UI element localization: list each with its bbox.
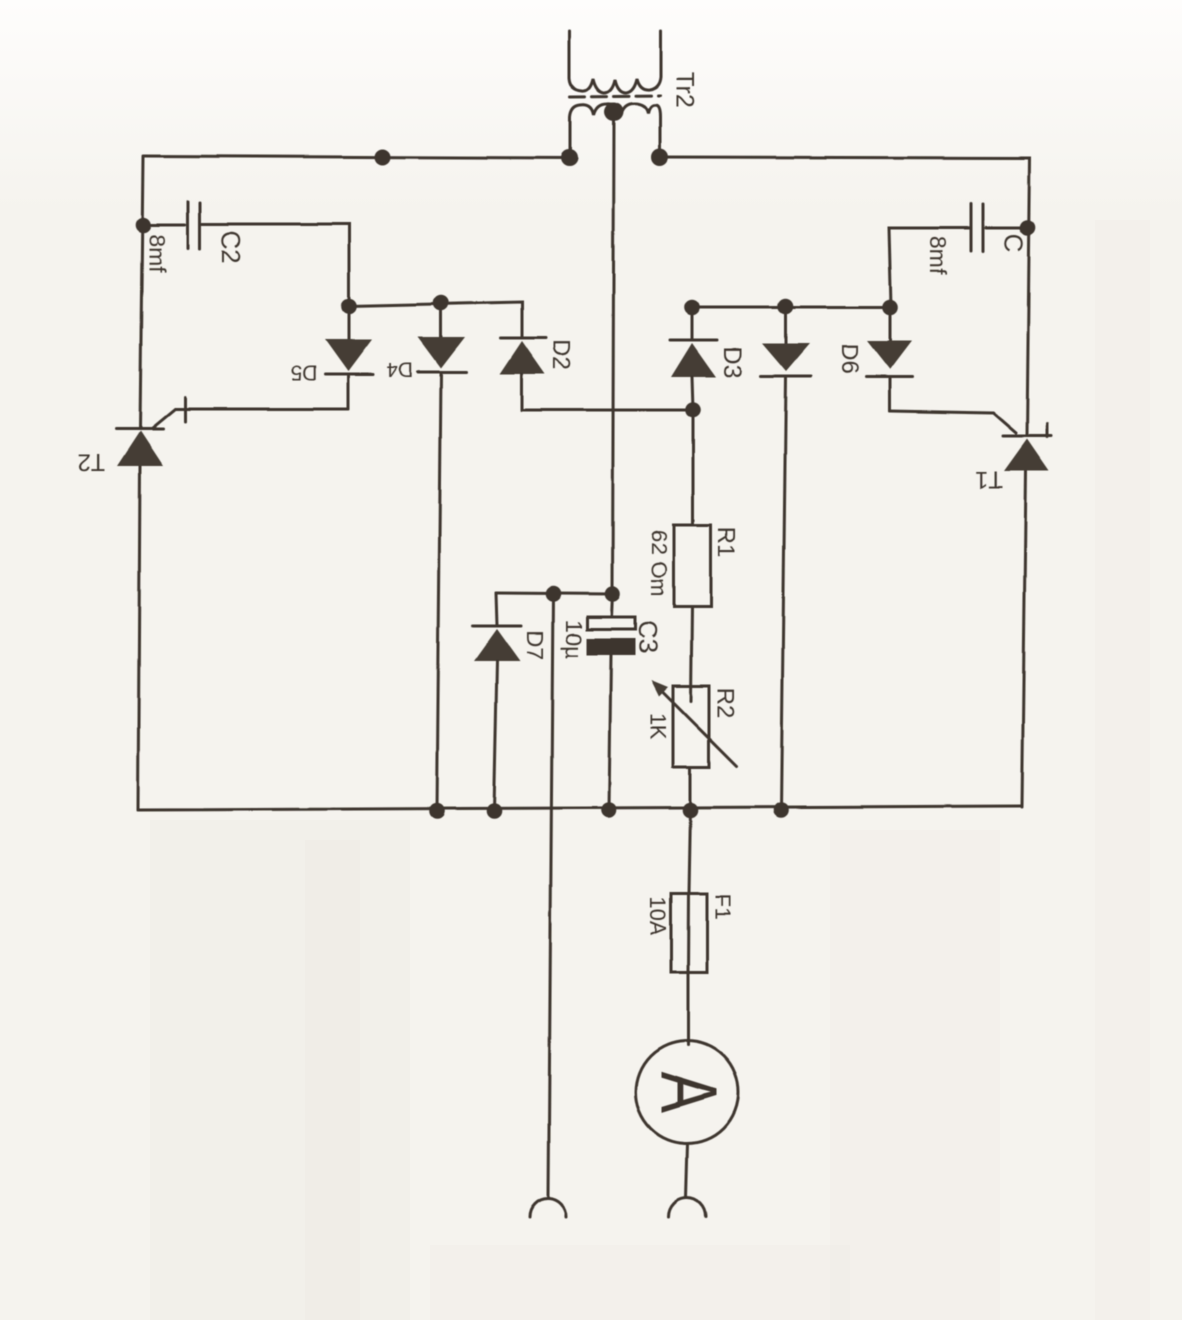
wire D3-D1-D6 top [692,306,890,309]
node dot bus R2 [682,802,698,818]
wire T1 gate [890,411,1016,433]
svg-text:C: C [999,234,1029,253]
wire D3 cathode lead [691,307,694,340]
terminal left [530,1198,567,1217]
wire top horizontal left [143,156,569,158]
svg-text:10µ: 10µ [561,620,587,659]
transformer Tr2 primary winding [569,31,661,93]
wire D1 anode lead [785,306,788,343]
svg-text:8mf: 8mf [925,236,951,275]
node dot transformer right lead [652,149,669,166]
wire D1 to bus [781,378,786,810]
transformer Tr2 center tap dot [605,103,624,122]
svg-text:D6: D6 [836,344,863,375]
svg-text:62 Om: 62 Om [647,530,672,596]
node dot transformer left lead [561,150,578,167]
wire bus to F1 [689,810,691,894]
node dot A [685,402,701,418]
wire D3 anode lead [692,377,693,410]
node dot on top wire [375,149,391,165]
wire D7 anode to bus [494,661,497,811]
wire T2 gate [152,409,348,428]
wire top horizontal right and right rail [660,157,1030,436]
node dot center line [605,586,621,602]
node dot output tap [545,586,561,602]
wire C3 to bus [609,655,611,810]
diode D1 [762,343,810,371]
wire C to D6 top [889,228,969,307]
node dot bus D7 [486,803,502,819]
wire right rail lower [1022,471,1026,807]
diode D4 [418,337,465,368]
svg-text:10A: 10A [646,896,671,935]
node dot D3 top [684,299,700,315]
wire node B to C3 [612,594,613,617]
wire node B horizontal [496,593,613,594]
wire top left rail [140,157,143,429]
node dot D5 top [341,298,357,314]
capacitor C2 [187,202,190,248]
wire center tap vertical [613,116,615,594]
wire D2 anode lead [521,374,524,410]
node dot C2 left [135,217,151,233]
wire left rail lower [138,466,140,810]
resistor R2 variable [673,686,709,767]
svg-text:D4: D4 [386,358,413,381]
node dot D6 top [882,299,898,315]
node dot D1 top [778,298,794,314]
ammeter A [636,1041,739,1144]
gate tick T2 [184,397,187,422]
svg-text:D7: D7 [522,630,548,659]
svg-text:D3: D3 [718,346,746,378]
svg-text:Tr2: Tr2 [670,72,698,109]
transformer Tr2 secondary winding [570,104,660,158]
wire F1 to ammeter [687,972,690,1045]
wire C2 to D5 top [202,224,349,306]
terminal right [669,1198,706,1217]
node dot bus C3 [601,802,617,818]
wire D7 cathode lead [496,593,497,626]
diode D6 [867,341,912,370]
svg-text:D5: D5 [291,361,318,384]
svg-text:1K: 1K [646,713,671,740]
node dot bus D4 [429,803,445,819]
wire output left long [549,594,554,1196]
wire bottom bus [138,806,1022,810]
wire D6 cathode lead [889,379,892,411]
capacitor C3 [588,617,636,629]
wire D2 to node A [522,409,693,412]
wire D5-D4-D2 top [349,302,522,338]
wire D6 anode lead [889,307,892,341]
wire node A to R1 [692,410,695,525]
svg-text:R1: R1 [713,527,740,558]
node dot C right rail [1020,220,1036,236]
svg-text:8mf: 8mf [144,234,170,273]
diode D3 [670,339,717,342]
thyristor T1 [1003,435,1051,438]
wire D4 anode lead [440,303,443,337]
capacitor C [982,204,985,251]
wire D5 cathode lead [347,376,350,409]
wire left rail to C2 [143,224,185,227]
node dot bus D1 [773,802,789,818]
diode D5 [325,339,372,371]
fuse F1 [671,894,707,972]
wire ammeter to terminal [686,1144,688,1198]
svg-text:D2: D2 [548,340,575,371]
resistor R1 [674,525,711,607]
svg-text:R2: R2 [712,688,739,719]
node dot D4 top [433,295,449,311]
diode D2 [500,337,546,340]
svg-text:F1: F1 [711,894,736,920]
wire R2 to bus [689,767,692,810]
svg-text:T2: T2 [77,449,105,476]
wire R1 to R2 [691,607,692,701]
wire right rail to C [986,227,1028,230]
svg-text:T1: T1 [975,466,1003,493]
svg-text:C2: C2 [216,230,246,263]
transformer Tr2 core [570,96,660,97]
svg-text:A: A [644,1072,733,1113]
wire D4 to bus [437,374,441,811]
wire D5 anode lead [348,306,351,340]
thyristor T2 [116,428,163,431]
diode D7 [473,625,521,628]
svg-text:C3: C3 [633,620,663,653]
